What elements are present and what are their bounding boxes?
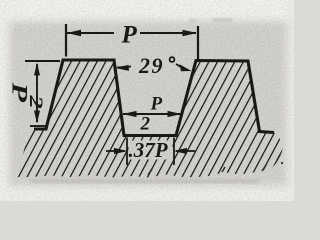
hatched material (thread cross-section body + two teeth) [16, 60, 283, 178]
faint smudge top right [189, 18, 233, 23]
left arrowhead [67, 30, 82, 36]
scan speckle noise [0, 0, 294, 201]
paper background [0, 0, 294, 201]
29deg right leader arrow [176, 64, 186, 70]
pitch dimension P : right tick [197, 26, 199, 59]
pitch dimension P : left tick [65, 24, 67, 57]
29deg left leader arrow [117, 67, 131, 68]
bottom extension line [30, 125, 46, 127]
top arrowhead [34, 63, 40, 76]
pitch dimension P : dimension line left part [67, 32, 114, 34]
thread profile outline [34, 60, 274, 136]
right arrowhead [183, 30, 198, 36]
thread depth dimension (left) : top extension line [25, 60, 60, 62]
vertical dimension line [36, 64, 38, 122]
pitch dimension P : dimension line right part [140, 32, 196, 34]
degree circle [170, 57, 175, 62]
label .37P on light patch [129, 141, 173, 160]
bottom arrowhead [34, 111, 40, 124]
P/2 groove-width dimension line (bar doubles as fraction bar) [123, 113, 181, 115]
.37P root-flat dimension : extension lines [126, 138, 128, 166]
.37P right outside arrow [176, 150, 195, 152]
stray hatch remnants at torn edge [148, 169, 152, 175]
.37P left outside arrow [106, 150, 125, 152]
faint tear-shadow streak under bottom edge [30, 179, 260, 184]
